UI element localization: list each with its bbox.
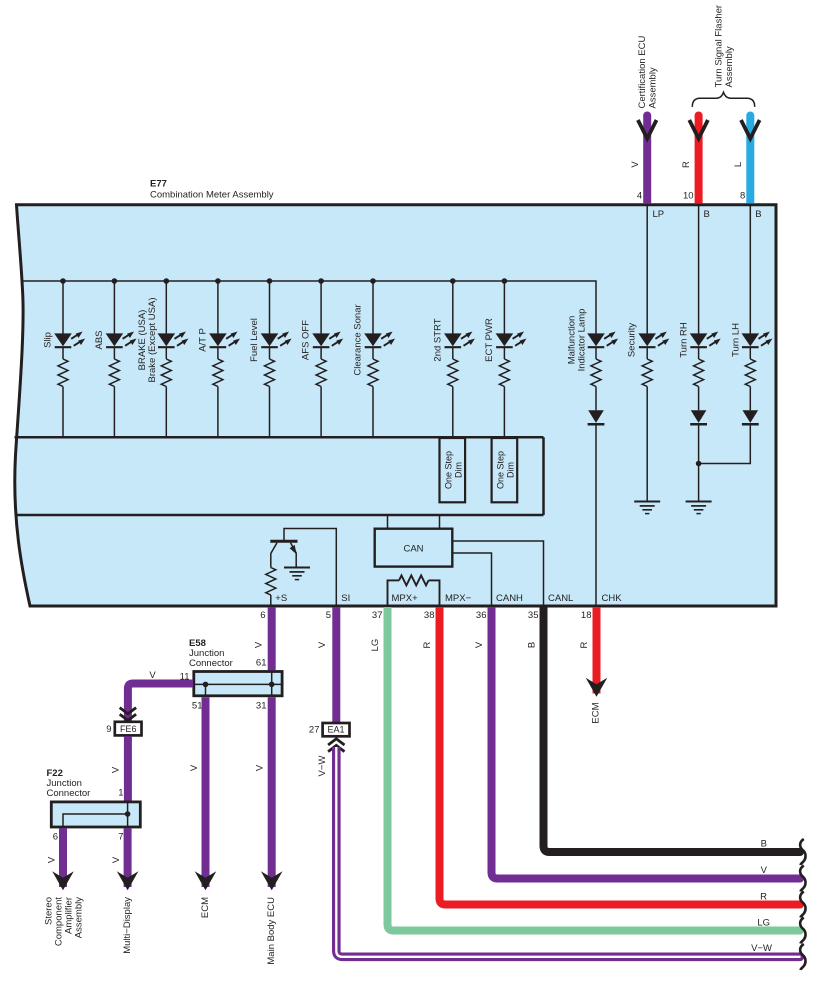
LED Turn RH: [690, 333, 708, 346]
svg-text:+S: +S: [275, 593, 287, 604]
svg-text:V: V: [111, 856, 122, 863]
arrow to ECM: [586, 678, 608, 697]
svg-text:Indicator Lamp: Indicator Lamp: [577, 309, 588, 372]
resistor Clearance Sonar: [368, 359, 378, 387]
svg-text:35: 35: [528, 610, 539, 621]
svg-text:L: L: [733, 162, 744, 167]
internal wire node to pin6: [63, 814, 128, 827]
wire break squiggle B: [800, 839, 805, 865]
wire: [372, 348, 374, 359]
svg-text:31: 31: [256, 701, 267, 712]
ground (transistor emitter): [284, 567, 310, 569]
svg-text:Fuel Level: Fuel Level: [249, 318, 260, 362]
wire break squiggle R: [800, 892, 805, 918]
svg-text:27: 27: [309, 725, 320, 736]
svg-text:LG: LG: [370, 639, 381, 652]
svg-text:ECM: ECM: [591, 702, 602, 723]
transistor collector leg to resistor: [271, 543, 277, 568]
LED ECT PWR: [496, 333, 514, 346]
wire: SI terminal up and over to transistor base: [284, 529, 336, 606]
resistor Turn RH: [694, 359, 704, 387]
svg-text:Dim: Dim: [506, 462, 516, 478]
internal illumination section upper line: [15, 436, 544, 439]
svg-text:E77: E77: [150, 179, 167, 190]
svg-text:V: V: [47, 856, 58, 863]
wire V from E58 pin 51 to ECM: [202, 697, 210, 887]
brace (turn signal flasher assembly): [692, 92, 754, 107]
svg-text:V: V: [630, 161, 641, 168]
svg-text:Assembly: Assembly: [724, 46, 735, 87]
svg-text:R: R: [760, 892, 767, 903]
svg-text:R: R: [681, 161, 692, 168]
wire MPX+ stub: [387, 580, 389, 606]
wire L (turn signal flasher LH, pin 8): [746, 116, 754, 204]
resistor Malfunction Indicator Lamp: [591, 359, 601, 387]
svg-text:Assembly: Assembly: [648, 67, 659, 108]
svg-text:51: 51: [192, 701, 203, 712]
node in E58 (right): [269, 682, 275, 688]
svg-text:LP: LP: [653, 209, 665, 220]
wire: LP terminal down to Security lamp: [646, 205, 648, 334]
wire to ground: [698, 424, 700, 501]
wire: [217, 387, 219, 438]
resistor A/T P: [213, 359, 223, 387]
connector FE6: [115, 722, 142, 736]
wire: [217, 348, 219, 359]
svg-text:36: 36: [476, 610, 487, 621]
resistor 2nd STRT: [448, 359, 458, 387]
svg-text:Certification ECU: Certification ECU: [637, 36, 648, 109]
resistor ECT PWR: [499, 359, 509, 387]
wire MPX- stub: [439, 580, 441, 606]
svg-text:CANL: CANL: [548, 593, 573, 604]
svg-text:V−W: V−W: [317, 756, 328, 777]
svg-text:4: 4: [637, 191, 642, 202]
LED Clearance Sonar: [364, 333, 382, 346]
svg-text:Security: Security: [627, 323, 638, 358]
LED ABS: [106, 333, 124, 346]
ground (turn): [686, 501, 712, 503]
svg-text:61: 61: [256, 658, 267, 669]
svg-text:1: 1: [118, 788, 123, 799]
svg-text:5: 5: [326, 610, 331, 621]
transistor emitter leg with arrow: [291, 543, 297, 568]
svg-text:B: B: [527, 642, 538, 648]
wire V from pin 11 into E58: [128, 684, 193, 723]
svg-text:V: V: [474, 641, 485, 648]
diode (MIL): [588, 410, 604, 423]
indicator lamp BRAKE (USA) : wire: [165, 281, 167, 334]
junction connector F22: [51, 802, 140, 827]
LED Fuel Level: [261, 333, 279, 346]
indicator lamp AFS OFF : wire: [320, 281, 322, 334]
LED Malfunction Indicator Lamp: [587, 333, 605, 346]
arrow to ECM: [195, 871, 217, 890]
arrow to Main Body ECU: [261, 871, 283, 890]
svg-text:V: V: [111, 766, 122, 773]
svg-text:A/T P: A/T P: [197, 328, 208, 352]
wire: section to CAN (right): [439, 516, 441, 529]
wire joining Turn RH: [699, 424, 751, 463]
resistor ABS: [109, 359, 119, 387]
svg-text:Brake (Except USA): Brake (Except USA): [147, 298, 158, 383]
wire to CHK terminal: [595, 424, 597, 605]
wire: [595, 387, 597, 411]
wire R from pin 38 (MPX-) to right edge: [440, 607, 801, 905]
svg-text:Turn Signal Flasher: Turn Signal Flasher: [714, 5, 725, 88]
resistor AFS OFF: [316, 359, 326, 387]
wire break squiggle V-W: [800, 944, 805, 970]
combination meter assembly E77 box: [15, 205, 776, 606]
svg-text:Assembly: Assembly: [74, 897, 85, 938]
svg-text:B: B: [755, 209, 761, 220]
LED Turn LH: [742, 333, 760, 346]
transistor Q1 base bar: [270, 540, 297, 543]
svg-text:11: 11: [180, 672, 190, 683]
indicator lamp A/T P : wire: [217, 281, 219, 334]
wire R from pin 18 (CHK) to ECM: [593, 607, 601, 694]
svg-text:One Step: One Step: [496, 451, 506, 489]
wire: [113, 387, 115, 438]
svg-text:V: V: [189, 764, 200, 771]
svg-text:V: V: [255, 764, 266, 771]
svg-text:V: V: [317, 641, 328, 648]
LED Slip: [54, 333, 72, 346]
wire: [503, 348, 505, 359]
svg-text:R: R: [579, 641, 590, 648]
wire: [62, 348, 64, 359]
diode (Turn RH): [691, 410, 707, 423]
svg-text:38: 38: [424, 610, 435, 621]
wire: [698, 348, 700, 359]
arrow into pin 8: [741, 120, 760, 139]
One Step Dim box (right): [492, 438, 518, 502]
svg-text:R: R: [422, 641, 433, 648]
svg-text:One Step: One Step: [444, 451, 454, 489]
wire: [698, 387, 700, 411]
svg-text:AFS OFF: AFS OFF: [301, 320, 312, 360]
svg-text:Connector: Connector: [189, 658, 233, 669]
wire V from E58 pin 31 to Main Body ECU: [268, 697, 276, 887]
wire V from pin 5 (SI) to EA1: [332, 607, 340, 723]
svg-text:Connector: Connector: [47, 788, 91, 799]
chevrons (into EA1): [328, 739, 344, 745]
internal wire pin1 to pin7: [127, 802, 129, 827]
wire: [503, 387, 505, 439]
LED 2nd STRT: [444, 333, 462, 346]
svg-text:Turn RH: Turn RH: [679, 322, 690, 358]
resistor (+S): [266, 568, 276, 595]
wire: [165, 387, 167, 438]
wire: [165, 348, 167, 359]
internal wire pin61 to node: [271, 672, 273, 696]
wire LG from pin 37 (MPX+) to right edge: [388, 607, 801, 931]
indicator lamp ABS : wire: [113, 281, 115, 334]
connector EA1: [323, 723, 350, 736]
wire: [452, 348, 454, 359]
node: turn signal junction: [696, 461, 702, 467]
wire: [269, 387, 271, 438]
svg-text:Clearance Sonar: Clearance Sonar: [353, 304, 364, 375]
svg-text:6: 6: [53, 832, 58, 843]
wire to ground: [646, 387, 648, 502]
svg-text:ECM: ECM: [200, 897, 211, 918]
svg-text:ABS: ABS: [94, 330, 105, 349]
wire: [595, 348, 597, 359]
arrow into pin 4: [638, 120, 657, 139]
svg-text:7: 7: [118, 832, 123, 843]
resistor BRAKE (USA): [161, 359, 171, 387]
svg-text:CHK: CHK: [602, 593, 623, 604]
wire: [320, 348, 322, 359]
chevrons (into FE6): [120, 708, 136, 714]
CAN block U1: [375, 529, 453, 567]
resistor (MPX termination): [388, 579, 400, 581]
indicator lamp Clearance Sonar : wire: [372, 281, 374, 334]
svg-text:V−W: V−W: [751, 943, 772, 954]
wire: [749, 387, 751, 411]
svg-text:2nd STRT: 2nd STRT: [432, 318, 443, 361]
node in F22: [125, 811, 131, 817]
svg-text:Turn LH: Turn LH: [730, 323, 741, 357]
svg-text:EA1: EA1: [327, 725, 344, 735]
internal illumination section right edge: [542, 437, 545, 515]
diode (Turn LH): [743, 410, 759, 423]
svg-text:LG: LG: [757, 918, 770, 929]
internal bus wire (upper): [22, 280, 597, 282]
LED BRAKE (USA): [158, 333, 176, 346]
svg-text:9: 9: [106, 724, 111, 735]
wire: [320, 387, 322, 438]
resistor Slip: [58, 359, 68, 387]
LED A/T P: [209, 333, 227, 346]
svg-text:CANH: CANH: [496, 593, 523, 604]
resistor Turn LH: [745, 359, 755, 387]
svg-text:ECT PWR: ECT PWR: [484, 318, 495, 362]
svg-text:6: 6: [260, 610, 265, 621]
resistor Security: [642, 359, 652, 387]
indicator lamp Fuel Level : wire: [269, 281, 271, 334]
svg-text:10: 10: [683, 191, 694, 202]
wire: section to CAN (left): [387, 516, 389, 529]
internal illumination section lower line: [16, 514, 544, 517]
wire V-W from EA1 to right edge: [336, 747, 800, 957]
svg-text:V: V: [149, 670, 156, 681]
One Step Dim box (left): [440, 438, 466, 502]
wire V (certification ECU, pin 4): [643, 116, 651, 204]
svg-text:Multi−Display: Multi−Display: [122, 897, 133, 954]
indicator lamp 2nd STRT : wire: [452, 281, 454, 334]
svg-text:FE6: FE6: [120, 724, 137, 734]
svg-text:B: B: [761, 839, 767, 850]
wire V from F22 pin 6 to Stereo Component Amplifier: [59, 828, 67, 887]
wire V from pin 36 (CANH) to right edge: [492, 607, 801, 879]
svg-text:SI: SI: [341, 593, 350, 604]
wire: [269, 348, 271, 359]
svg-text:V: V: [761, 865, 768, 876]
wire: CAN to CANH terminal: [452, 553, 491, 605]
svg-text:MPX−: MPX−: [445, 593, 472, 604]
svg-text:B: B: [704, 209, 710, 220]
arrow into pin 10: [689, 120, 708, 139]
arrow to Multi-Display: [117, 871, 139, 890]
svg-text:8: 8: [740, 191, 745, 202]
node in E58 (left): [203, 682, 209, 688]
wire: [62, 387, 64, 438]
wire: [372, 387, 374, 438]
svg-text:CAN: CAN: [403, 544, 423, 555]
wire to +S terminal: [270, 595, 272, 605]
LED AFS OFF: [312, 333, 330, 346]
wire R (turn signal flasher RH, pin 10): [695, 116, 703, 204]
wire B from pin 35 (CANL) to right edge: [544, 607, 801, 852]
wire: [452, 387, 454, 439]
ground (security): [634, 501, 660, 503]
svg-text:Main Body ECU: Main Body ECU: [266, 897, 277, 965]
svg-text:Combination Meter Assembly: Combination Meter Assembly: [150, 190, 274, 201]
wire: [749, 348, 751, 359]
internal bus in E58: [194, 683, 282, 685]
wire V from FE6 to F22: [124, 736, 132, 800]
wire V from pin 6 (+S) to E58 pin 61: [268, 607, 276, 670]
wire: [113, 348, 115, 359]
wire break squiggle V: [800, 866, 805, 892]
resistor Fuel Level: [265, 359, 275, 387]
wire: B terminal down to Turn LH lamp: [749, 205, 751, 334]
LED Security: [638, 333, 656, 346]
svg-text:Dim: Dim: [454, 462, 464, 478]
indicator lamp ECT PWR : wire: [503, 281, 505, 334]
wire break squiggle LG: [800, 918, 805, 944]
svg-text:V: V: [254, 641, 265, 648]
wire: [646, 348, 648, 359]
wire: CAN to CANL terminal: [452, 541, 543, 605]
wire: bus corner down to MIL lamp: [595, 280, 597, 333]
wire V from F22 pin 7 to Multi-Display: [124, 828, 132, 887]
svg-text:18: 18: [581, 610, 592, 621]
svg-text:MPX+: MPX+: [392, 593, 419, 604]
arrow to Stereo Component Amplifier Assembly: [52, 871, 74, 890]
junction connector E58: [194, 672, 282, 696]
indicator lamp Slip : wire: [62, 281, 64, 334]
svg-text:Slip: Slip: [43, 332, 54, 348]
wire: B terminal down to Turn RH lamp: [698, 205, 700, 334]
svg-text:37: 37: [372, 610, 383, 621]
internal wire node to pin51: [205, 684, 207, 695]
